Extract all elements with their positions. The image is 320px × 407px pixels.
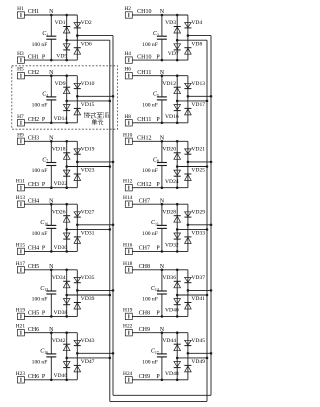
svg-text:VD43: VD43 — [81, 338, 95, 344]
svg-text:VD26: VD26 — [52, 209, 66, 215]
wire CH7 P line — [132, 250, 188, 252]
junction on bus — [112, 289, 115, 292]
capacitor C17 100 nF — [161, 333, 163, 354]
wire output minus — [67, 166, 110, 168]
svg-text:C10: C10 — [40, 220, 48, 226]
node N junction — [50, 14, 53, 17]
svg-text:C8: C8 — [153, 157, 159, 163]
svg-text:C5: C5 — [153, 92, 159, 98]
node DC- midpoint — [65, 165, 68, 168]
wire CH1 N line — [24, 14, 77, 16]
svg-text:VD33: VD33 — [191, 231, 205, 237]
svg-text:VD48: VD48 — [165, 371, 179, 377]
svg-text:C17: C17 — [151, 349, 159, 355]
svg-text:CH8: CH8 — [139, 311, 150, 317]
wire DC+ bus right — [210, 36, 212, 396]
connector H12 — [125, 185, 132, 191]
svg-text:VD14: VD14 — [54, 116, 68, 122]
node DC+ midpoint — [187, 352, 190, 355]
connector H19 — [125, 313, 132, 319]
wire left branch — [176, 15, 178, 60]
svg-text:VD25: VD25 — [191, 168, 205, 174]
node DC+ midpoint — [76, 352, 79, 355]
diode VD46 — [63, 362, 70, 367]
wire output plus — [188, 161, 211, 163]
diode VD25 — [184, 173, 191, 175]
node DC+ midpoint — [76, 34, 79, 37]
wire right branch — [76, 204, 78, 251]
svg-text:H19: H19 — [16, 307, 26, 313]
svg-text:H1: H1 — [17, 6, 24, 12]
wire output minus — [177, 228, 207, 230]
wire right branch — [187, 15, 189, 60]
connector H8 — [125, 120, 132, 126]
wire output minus — [67, 100, 110, 102]
wire output plus — [77, 352, 113, 354]
wire DC- bus left — [109, 40, 111, 401]
svg-text:100 nF: 100 nF — [142, 297, 158, 303]
svg-text:H6: H6 — [124, 67, 131, 73]
junction on bus — [210, 352, 213, 355]
diode VD9 — [63, 86, 70, 88]
diode VD23 — [74, 173, 81, 175]
wire output minus — [67, 357, 110, 359]
svg-text:VD8: VD8 — [191, 41, 202, 47]
svg-text:H21: H21 — [16, 324, 26, 330]
wire CH2 P line — [24, 122, 77, 124]
diode VD10 — [74, 83, 81, 88]
wire output minus — [177, 357, 207, 359]
wire output minus — [67, 228, 110, 230]
junction on bus — [210, 289, 213, 292]
diode VD15 — [74, 107, 81, 109]
svg-text:CH12: CH12 — [137, 182, 151, 188]
node P junction — [50, 315, 53, 318]
diode VD42 — [63, 343, 70, 345]
wire CH6 P line — [24, 379, 77, 381]
connector H15 — [17, 248, 24, 254]
svg-text:VD28: VD28 — [162, 209, 176, 215]
svg-text:CH11: CH11 — [137, 70, 151, 76]
wire output plus — [77, 161, 113, 163]
wire right branch — [187, 76, 189, 123]
svg-text:CH5: CH5 — [28, 264, 39, 270]
svg-text:H2: H2 — [124, 6, 131, 12]
node P junction — [50, 59, 53, 62]
svg-text:VD17: VD17 — [191, 102, 205, 108]
node DC+ midpoint — [187, 34, 190, 37]
capacitor C1 100 nF — [50, 15, 52, 36]
junction on bus — [112, 161, 115, 164]
junction on bus — [210, 95, 213, 98]
svg-text:CH10: CH10 — [137, 9, 151, 15]
diode VD27 — [74, 212, 81, 217]
svg-text:H22: H22 — [123, 324, 133, 330]
wire output plus — [188, 352, 211, 354]
svg-text:H19: H19 — [123, 307, 133, 313]
svg-text:VD47: VD47 — [81, 359, 95, 365]
diode VD18 — [63, 152, 70, 154]
connector H6 — [125, 73, 132, 79]
junction on bus — [112, 352, 115, 355]
diode VD21 — [185, 149, 192, 154]
diode VD30 — [63, 233, 70, 238]
svg-text:100 nF: 100 nF — [32, 360, 48, 366]
connector H9 — [17, 138, 24, 144]
connector H19 — [17, 313, 24, 319]
node N junction — [161, 269, 164, 272]
wire right branch — [76, 76, 78, 123]
svg-text:CH7: CH7 — [139, 198, 150, 204]
wire output minus — [177, 100, 207, 102]
svg-text:CH12: CH12 — [137, 136, 151, 142]
node DC- midpoint — [176, 294, 179, 297]
svg-text:VD42: VD42 — [52, 338, 66, 344]
node DC+ midpoint — [76, 161, 79, 164]
svg-text:CH5: CH5 — [28, 311, 39, 317]
wire CH6 N line — [24, 332, 77, 334]
node DC+ midpoint — [76, 95, 79, 98]
svg-text:H3: H3 — [17, 51, 24, 57]
diode VD8 — [184, 47, 191, 49]
wire output plus — [188, 95, 211, 97]
node DC+ midpoint — [187, 224, 190, 227]
junction on bus — [210, 224, 213, 227]
node DC- midpoint — [65, 294, 68, 297]
wire CH8 N line — [132, 269, 188, 271]
node DC- midpoint — [65, 39, 68, 42]
svg-text:H24: H24 — [123, 371, 133, 377]
svg-text:VD24: VD24 — [165, 179, 179, 185]
connector H11 — [17, 185, 24, 191]
svg-text:VD5: VD5 — [56, 54, 67, 60]
node P junction — [161, 59, 164, 62]
diode VD37 — [185, 277, 192, 282]
connector H23 — [17, 377, 24, 383]
svg-text:H8: H8 — [124, 114, 131, 120]
diode VD36 — [174, 280, 181, 282]
diode VD49 — [184, 364, 191, 366]
wire right branch — [187, 333, 189, 380]
wire CH5 N line — [24, 269, 77, 271]
svg-text:VD15: VD15 — [81, 102, 95, 108]
wire left branch — [176, 204, 178, 251]
svg-text:H9: H9 — [17, 132, 24, 138]
wire right branch — [76, 141, 78, 187]
wire CH10 P line — [132, 59, 188, 61]
diode VD39 — [74, 302, 81, 304]
wire output minus — [177, 39, 207, 41]
capacitor C13 100 nF — [50, 270, 52, 291]
svg-text:VD27: VD27 — [81, 209, 95, 215]
wire CH11 N line — [132, 75, 188, 77]
node N junction — [50, 74, 53, 77]
node DC- midpoint — [176, 228, 179, 231]
connector H3 — [17, 57, 24, 63]
svg-text:VD41: VD41 — [191, 296, 205, 302]
wire output minus — [67, 39, 110, 41]
node P junction — [50, 379, 53, 382]
svg-text:VD45: VD45 — [191, 338, 205, 344]
diode VD3 — [174, 26, 181, 28]
svg-text:VD12: VD12 — [162, 81, 176, 87]
svg-text:100 nF: 100 nF — [142, 168, 158, 174]
svg-text:VD39: VD39 — [81, 296, 95, 302]
diode VD6 — [74, 47, 81, 49]
connector H1 — [17, 12, 24, 18]
wire CH12 N line — [132, 140, 188, 142]
diode VD26 — [63, 215, 70, 217]
svg-text:H15: H15 — [16, 242, 26, 248]
node DC+ midpoint — [187, 95, 190, 98]
capacitor C7 100 nF — [50, 141, 52, 162]
svg-text:100 nF: 100 nF — [32, 231, 48, 237]
svg-text:CH1: CH1 — [28, 9, 39, 15]
diode VD5 — [63, 44, 70, 49]
node DC+ midpoint — [187, 289, 190, 292]
svg-text:H5: H5 — [17, 67, 24, 73]
diode VD34 — [63, 280, 70, 282]
diode VD20 — [174, 152, 181, 154]
wire left branch — [176, 333, 178, 380]
svg-text:CH3: CH3 — [28, 136, 39, 142]
svg-text:CH6: CH6 — [28, 327, 39, 333]
wire left branch — [176, 141, 178, 187]
diode VD48 — [174, 362, 181, 367]
node N junction — [50, 203, 53, 206]
connector H14 — [125, 201, 132, 207]
wire left branch — [66, 15, 68, 60]
svg-text:C1: C1 — [42, 31, 48, 37]
svg-text:VD9: VD9 — [55, 81, 66, 87]
svg-text:100 nF: 100 nF — [32, 42, 48, 48]
svg-text:C13: C13 — [40, 286, 48, 292]
svg-text:VD22: VD22 — [54, 181, 68, 187]
svg-text:H7: H7 — [17, 114, 24, 120]
node DC- midpoint — [65, 100, 68, 103]
wire CH7 N line — [132, 203, 188, 205]
node P junction — [50, 122, 53, 125]
wire left branch — [66, 204, 68, 251]
connector H21 — [17, 330, 24, 336]
node P junction — [161, 186, 164, 189]
svg-text:H16: H16 — [123, 242, 133, 248]
svg-text:C7: C7 — [42, 157, 48, 163]
svg-text:VD31: VD31 — [81, 231, 95, 237]
svg-text:CH10: CH10 — [137, 54, 151, 60]
capacitor C14 100 nF — [161, 270, 163, 291]
svg-text:H11: H11 — [16, 179, 25, 185]
node P junction — [161, 122, 164, 125]
node N junction — [50, 140, 53, 143]
svg-text:CH9: CH9 — [139, 327, 150, 333]
capacitor C2 100 nF — [161, 15, 163, 36]
svg-text:100 nF: 100 nF — [142, 231, 158, 237]
svg-text:VD36: VD36 — [162, 275, 176, 281]
svg-text:C11: C11 — [151, 220, 159, 226]
wire right branch — [187, 141, 189, 187]
node DC- midpoint — [176, 357, 179, 360]
svg-text:VD44: VD44 — [162, 338, 176, 344]
svg-text:100 nF: 100 nF — [142, 103, 158, 109]
wire output plus — [77, 224, 113, 226]
svg-text:100 nF: 100 nF — [32, 103, 48, 109]
diode VD38 — [63, 299, 70, 304]
svg-text:CH9: CH9 — [139, 374, 150, 380]
wire left branch — [176, 270, 178, 317]
svg-text:100 nF: 100 nF — [142, 42, 158, 48]
svg-text:H18: H18 — [123, 261, 133, 267]
wire output plus — [188, 289, 211, 291]
svg-text:H4: H4 — [124, 51, 131, 57]
wire DC+ bus left — [112, 36, 114, 396]
wire CH9 P line — [132, 379, 188, 381]
svg-text:H23: H23 — [16, 371, 26, 377]
diode VD17 — [184, 107, 191, 109]
svg-text:H10: H10 — [123, 132, 133, 138]
svg-text:C16: C16 — [40, 349, 48, 355]
wire DC- bus right — [206, 40, 208, 401]
capacitor C10 100 nF — [50, 204, 52, 225]
wire CH2 N line — [24, 75, 77, 77]
node DC- midpoint — [176, 165, 179, 168]
svg-text:VD2: VD2 — [81, 20, 92, 26]
diode VD43 — [74, 340, 81, 345]
wire CH4 N line — [24, 203, 77, 205]
junction on bus — [112, 224, 115, 227]
wire output plus — [77, 95, 113, 97]
capacitor C16 100 nF — [50, 333, 52, 354]
node N junction — [161, 203, 164, 206]
wire right branch — [76, 333, 78, 380]
diode VD28 — [174, 215, 181, 217]
diode VD22 — [63, 170, 70, 175]
connector H24 — [125, 377, 132, 383]
svg-text:CH8: CH8 — [139, 264, 150, 270]
connector H5 — [17, 73, 24, 79]
wire CH9 N line — [132, 332, 188, 334]
svg-text:VD7: VD7 — [168, 51, 179, 57]
wire left branch — [176, 76, 178, 123]
dashed outline bridge rectifier unit — [12, 66, 118, 129]
connector H13 — [17, 201, 24, 207]
wire output minus — [177, 294, 207, 296]
connector H2 — [125, 12, 132, 18]
diode VD45 — [185, 340, 192, 345]
svg-text:VD37: VD37 — [191, 275, 205, 281]
svg-text:VD23: VD23 — [81, 168, 95, 174]
wire output plus — [77, 35, 113, 37]
wire left branch — [66, 141, 68, 187]
connector H7 — [17, 120, 24, 126]
svg-text:VD10: VD10 — [81, 81, 95, 87]
wire CH11 P line — [132, 122, 188, 124]
node DC+ midpoint — [76, 224, 79, 227]
node DC- midpoint — [176, 100, 179, 103]
wire CH12 P line — [132, 187, 188, 189]
wire CH4 P line — [24, 250, 77, 252]
connector H18 — [125, 267, 132, 273]
diode VD14 — [63, 105, 70, 110]
wire left branch — [66, 270, 68, 317]
svg-text:VD4: VD4 — [191, 20, 202, 26]
svg-text:100 nF: 100 nF — [142, 360, 158, 366]
svg-text:CH3: CH3 — [28, 182, 39, 188]
node DC+ midpoint — [76, 289, 79, 292]
label qiaoshi zhengliu (bridge rectifier) — [84, 112, 90, 118]
svg-text:VD16: VD16 — [165, 114, 179, 120]
svg-text:VD46: VD46 — [54, 373, 68, 379]
node P junction — [50, 186, 53, 189]
svg-text:CH2: CH2 — [28, 70, 39, 76]
node DC- midpoint — [176, 39, 179, 42]
svg-text:VD29: VD29 — [191, 209, 205, 215]
svg-text:C2: C2 — [153, 31, 159, 37]
wire CH10 N line — [132, 14, 188, 16]
svg-text:VD6: VD6 — [81, 41, 92, 47]
wire CH3 N line — [24, 140, 77, 142]
capacitor C4 100 nF — [50, 76, 52, 97]
svg-text:CH6: CH6 — [28, 374, 39, 380]
wire output plus — [188, 35, 211, 37]
wire left branch — [66, 76, 68, 123]
svg-text:VD34: VD34 — [52, 275, 66, 281]
connector H4 — [125, 57, 132, 63]
connector H16 — [125, 248, 132, 254]
svg-text:VD18: VD18 — [52, 147, 66, 153]
node P junction — [161, 379, 164, 382]
diode VD29 — [185, 212, 192, 217]
diode VD44 — [174, 343, 181, 345]
svg-text:VD30: VD30 — [54, 245, 68, 251]
diode VD1 — [63, 26, 70, 28]
svg-text:H17: H17 — [16, 261, 26, 267]
node P junction — [161, 250, 164, 253]
svg-text:C14: C14 — [151, 286, 159, 292]
svg-text:VD32: VD32 — [165, 243, 179, 249]
svg-text:VD21: VD21 — [191, 147, 205, 153]
node N junction — [50, 269, 53, 272]
connector H10 — [125, 138, 132, 144]
connector H17 — [17, 267, 24, 273]
diode VD33 — [184, 236, 191, 238]
svg-text:VD38: VD38 — [54, 310, 68, 316]
diode VD12 — [174, 86, 181, 88]
diode VD32 — [174, 233, 181, 238]
svg-text:CH2: CH2 — [28, 117, 39, 123]
wire CH5 P line — [24, 315, 77, 317]
connector H22 — [125, 330, 132, 336]
node N junction — [161, 331, 164, 334]
svg-text:VD20: VD20 — [162, 147, 176, 153]
label danyuan (unit) — [92, 119, 98, 125]
diode VD19 — [74, 149, 81, 154]
wire output minus — [67, 294, 110, 296]
diode VD7 — [174, 44, 181, 49]
svg-text:CH4: CH4 — [28, 246, 39, 252]
wire right branch — [187, 204, 189, 251]
wire output plus — [77, 289, 113, 291]
wire right branch — [76, 270, 78, 317]
svg-text:VD13: VD13 — [191, 81, 205, 87]
svg-text:C4: C4 — [42, 92, 48, 98]
node N junction — [161, 140, 164, 143]
wire CH1 P line — [24, 59, 77, 61]
svg-text:VD1: VD1 — [55, 20, 66, 26]
node DC- midpoint — [65, 357, 68, 360]
svg-text:VD49: VD49 — [191, 359, 205, 365]
wire CH8 P line — [132, 315, 188, 317]
